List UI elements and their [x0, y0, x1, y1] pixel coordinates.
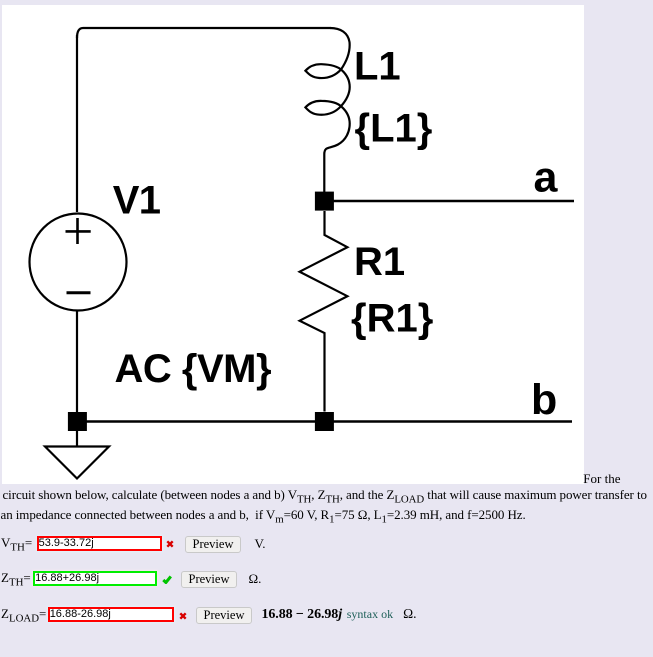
row 1 Preview button	[185, 536, 241, 553]
row 3 incorrect mark	[179, 612, 187, 620]
row 3 answer input (red)	[48, 607, 174, 622]
node square a	[315, 192, 334, 211]
minus sign	[67, 291, 91, 294]
node square ground	[68, 412, 87, 431]
bottom wire	[77, 420, 572, 423]
inductor L1	[305, 28, 349, 193]
ground	[45, 431, 109, 479]
plus sign	[66, 218, 91, 244]
wire: top wire from V1 to inductor	[77, 28, 331, 38]
paragraph line 3	[1, 507, 526, 522]
row 1 incorrect mark	[166, 540, 174, 548]
svg-text:R1: R1	[354, 240, 405, 284]
wire node a to right	[334, 200, 575, 203]
row 2 Preview button	[181, 571, 237, 588]
svg-text:{L1}: {L1}	[355, 106, 433, 150]
circuit schematic image	[2, 5, 584, 484]
wire: V1 bottom to ground node	[76, 311, 78, 414]
svg-text:b: b	[531, 376, 557, 424]
row 2 correct mark	[162, 575, 172, 584]
paragraph line 1	[583, 471, 620, 486]
row 3 preview text	[262, 606, 417, 622]
row 3 label ZLOAD=	[1, 606, 46, 621]
row 1 label VTH=	[1, 535, 32, 550]
row 2 answer input (green)	[33, 571, 157, 586]
svg-text:a: a	[534, 154, 559, 202]
wire: left vertical from top wire to V1	[76, 35, 78, 212]
paragraph line 2	[3, 487, 647, 502]
source V1 circle	[30, 214, 127, 311]
svg-text:L1: L1	[354, 45, 401, 89]
row 1 unit	[255, 536, 266, 551]
node square b (mid)	[315, 412, 334, 431]
svg-text:V1: V1	[113, 178, 161, 222]
svg-text:AC {VM}: AC {VM}	[115, 347, 272, 391]
resistor R1	[300, 211, 348, 412]
row 2 unit	[249, 571, 262, 586]
svg-text:{R1}: {R1}	[351, 297, 433, 341]
row 1 answer input (red)	[37, 536, 162, 551]
row 3 Preview button	[196, 607, 252, 624]
row 2 label ZTH=	[1, 570, 31, 585]
